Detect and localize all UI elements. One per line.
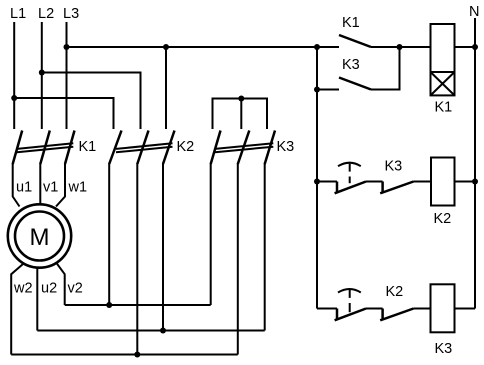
pushbutton NC contact (rung 3) <box>335 289 366 320</box>
wire rung3 mid <box>366 308 383 310</box>
svg-text:K1: K1 <box>79 139 97 155</box>
contactor K2 linkage bar <box>116 143 173 152</box>
wire star bridge middle drop <box>240 99 242 130</box>
svg-text:K3: K3 <box>277 139 295 155</box>
contactor K2 pole 1 blade <box>109 131 121 165</box>
node junction v2 / K2 pole1 <box>106 302 112 308</box>
svg-text:v1: v1 <box>43 180 58 196</box>
wire drop to K2 pole3 <box>165 47 167 129</box>
wire w2 delta line <box>11 354 238 356</box>
contactor K1 pole 3 blade <box>65 131 75 165</box>
node junction top rail / control rail <box>314 44 320 50</box>
contact K3 NO (latch) <box>317 47 400 90</box>
node junction control rail / K3 latch <box>314 87 320 93</box>
wire motor terminal v2 <box>56 263 64 305</box>
wire control left rail <box>316 47 318 309</box>
wire motor terminal u1 <box>13 163 20 207</box>
wire L2 row <box>42 73 141 130</box>
wire rung2 to coil <box>414 181 432 183</box>
rung 2: wire from rail <box>317 181 337 183</box>
node junction rail / rung2 <box>314 179 320 185</box>
svg-text:K3: K3 <box>342 57 360 73</box>
wire motor terminal v1 <box>39 163 41 204</box>
svg-text:K2: K2 <box>177 139 195 155</box>
svg-text:L1: L1 <box>10 6 26 22</box>
node junction star point <box>238 96 244 102</box>
svg-text:u1: u1 <box>16 180 32 196</box>
wire motor terminal u2 <box>36 268 38 331</box>
node junction N / rung2 <box>472 179 478 185</box>
wire K3 pole2 down <box>237 163 239 355</box>
wire K2 pole1 down <box>108 163 110 305</box>
wire K3 pole1 down <box>210 163 212 305</box>
wire rung1 to coil <box>371 46 431 48</box>
svg-text:K2: K2 <box>386 284 404 300</box>
wire L3 vertical <box>66 22 68 129</box>
wire K2 pole3 down <box>162 163 164 331</box>
svg-text:K1: K1 <box>435 100 453 116</box>
node junction K3 latch <box>397 44 403 50</box>
wire K2 pole2 down <box>136 163 138 355</box>
node junction u2 / K2 pole3 <box>160 328 166 334</box>
contactor K3 pole 3 blade <box>265 131 275 165</box>
motor M inner circle <box>15 212 64 261</box>
wire rung3 to coil <box>414 308 431 310</box>
coil K2 <box>431 158 455 206</box>
svg-text:K3: K3 <box>385 159 403 175</box>
svg-text:v2: v2 <box>68 281 83 297</box>
wire L2 vertical <box>41 22 43 129</box>
contactor K3 linkage bar <box>215 143 273 152</box>
coil K3 <box>431 284 455 332</box>
wire coil K1 to N <box>455 46 476 48</box>
wire L1 row <box>14 98 113 129</box>
wire u2 delta line <box>37 330 264 332</box>
coil K1 with timer box <box>431 24 455 95</box>
wire top rail from L3 <box>67 46 340 48</box>
contactor K3 pole 2 blade <box>238 131 250 165</box>
svg-text:L2: L2 <box>38 6 54 22</box>
rung 3: wire from rail <box>317 308 337 310</box>
contactor K3 pole 1 blade <box>211 131 221 165</box>
wire star bridge <box>213 99 268 130</box>
node junction L3/top-rail <box>64 44 70 50</box>
wire coil K3 to N <box>455 308 476 310</box>
svg-text:K1: K1 <box>342 15 360 31</box>
svg-text:w2: w2 <box>13 281 33 297</box>
svg-text:M: M <box>30 224 50 251</box>
svg-text:K2: K2 <box>434 211 452 227</box>
wire K3 pole3 down <box>264 163 266 331</box>
contact K2 NC (rung 3) <box>380 309 413 321</box>
node junction w2 / K2 pole2 <box>134 352 140 358</box>
svg-text:N: N <box>469 4 479 20</box>
svg-text:K3: K3 <box>435 341 453 357</box>
contact K3 NC (rung 2) <box>380 182 413 194</box>
contactor K1 linkage bar <box>17 143 73 152</box>
wire N rail <box>474 18 476 309</box>
wire motor terminal w1 <box>56 163 65 207</box>
wire v2 delta line <box>65 304 211 306</box>
node junction L1 row <box>11 95 17 101</box>
contactor K2 pole 3 blade <box>163 131 175 165</box>
svg-text:u2: u2 <box>41 281 57 297</box>
wire coil K2 to N <box>455 181 476 183</box>
svg-text:w1: w1 <box>68 180 88 196</box>
node junction L2 row <box>39 70 45 76</box>
wire rung2 mid <box>366 181 383 183</box>
wire motor terminal w2 <box>11 264 23 355</box>
contactor K1 pole 1 blade <box>13 131 23 165</box>
node junction top-rail to K2 pole3 <box>163 44 169 50</box>
motor M outer circle <box>8 204 71 267</box>
contactor K2 pole 2 blade <box>137 131 148 165</box>
pushbutton NC contact (rung 2) <box>335 163 366 194</box>
node junction N / rung1 <box>472 44 478 50</box>
svg-text:L3: L3 <box>63 6 79 22</box>
contactor K1 pole 2 blade <box>40 131 50 165</box>
wire L1 vertical <box>13 22 15 129</box>
contact K1 NO (rung 1) <box>339 35 371 47</box>
